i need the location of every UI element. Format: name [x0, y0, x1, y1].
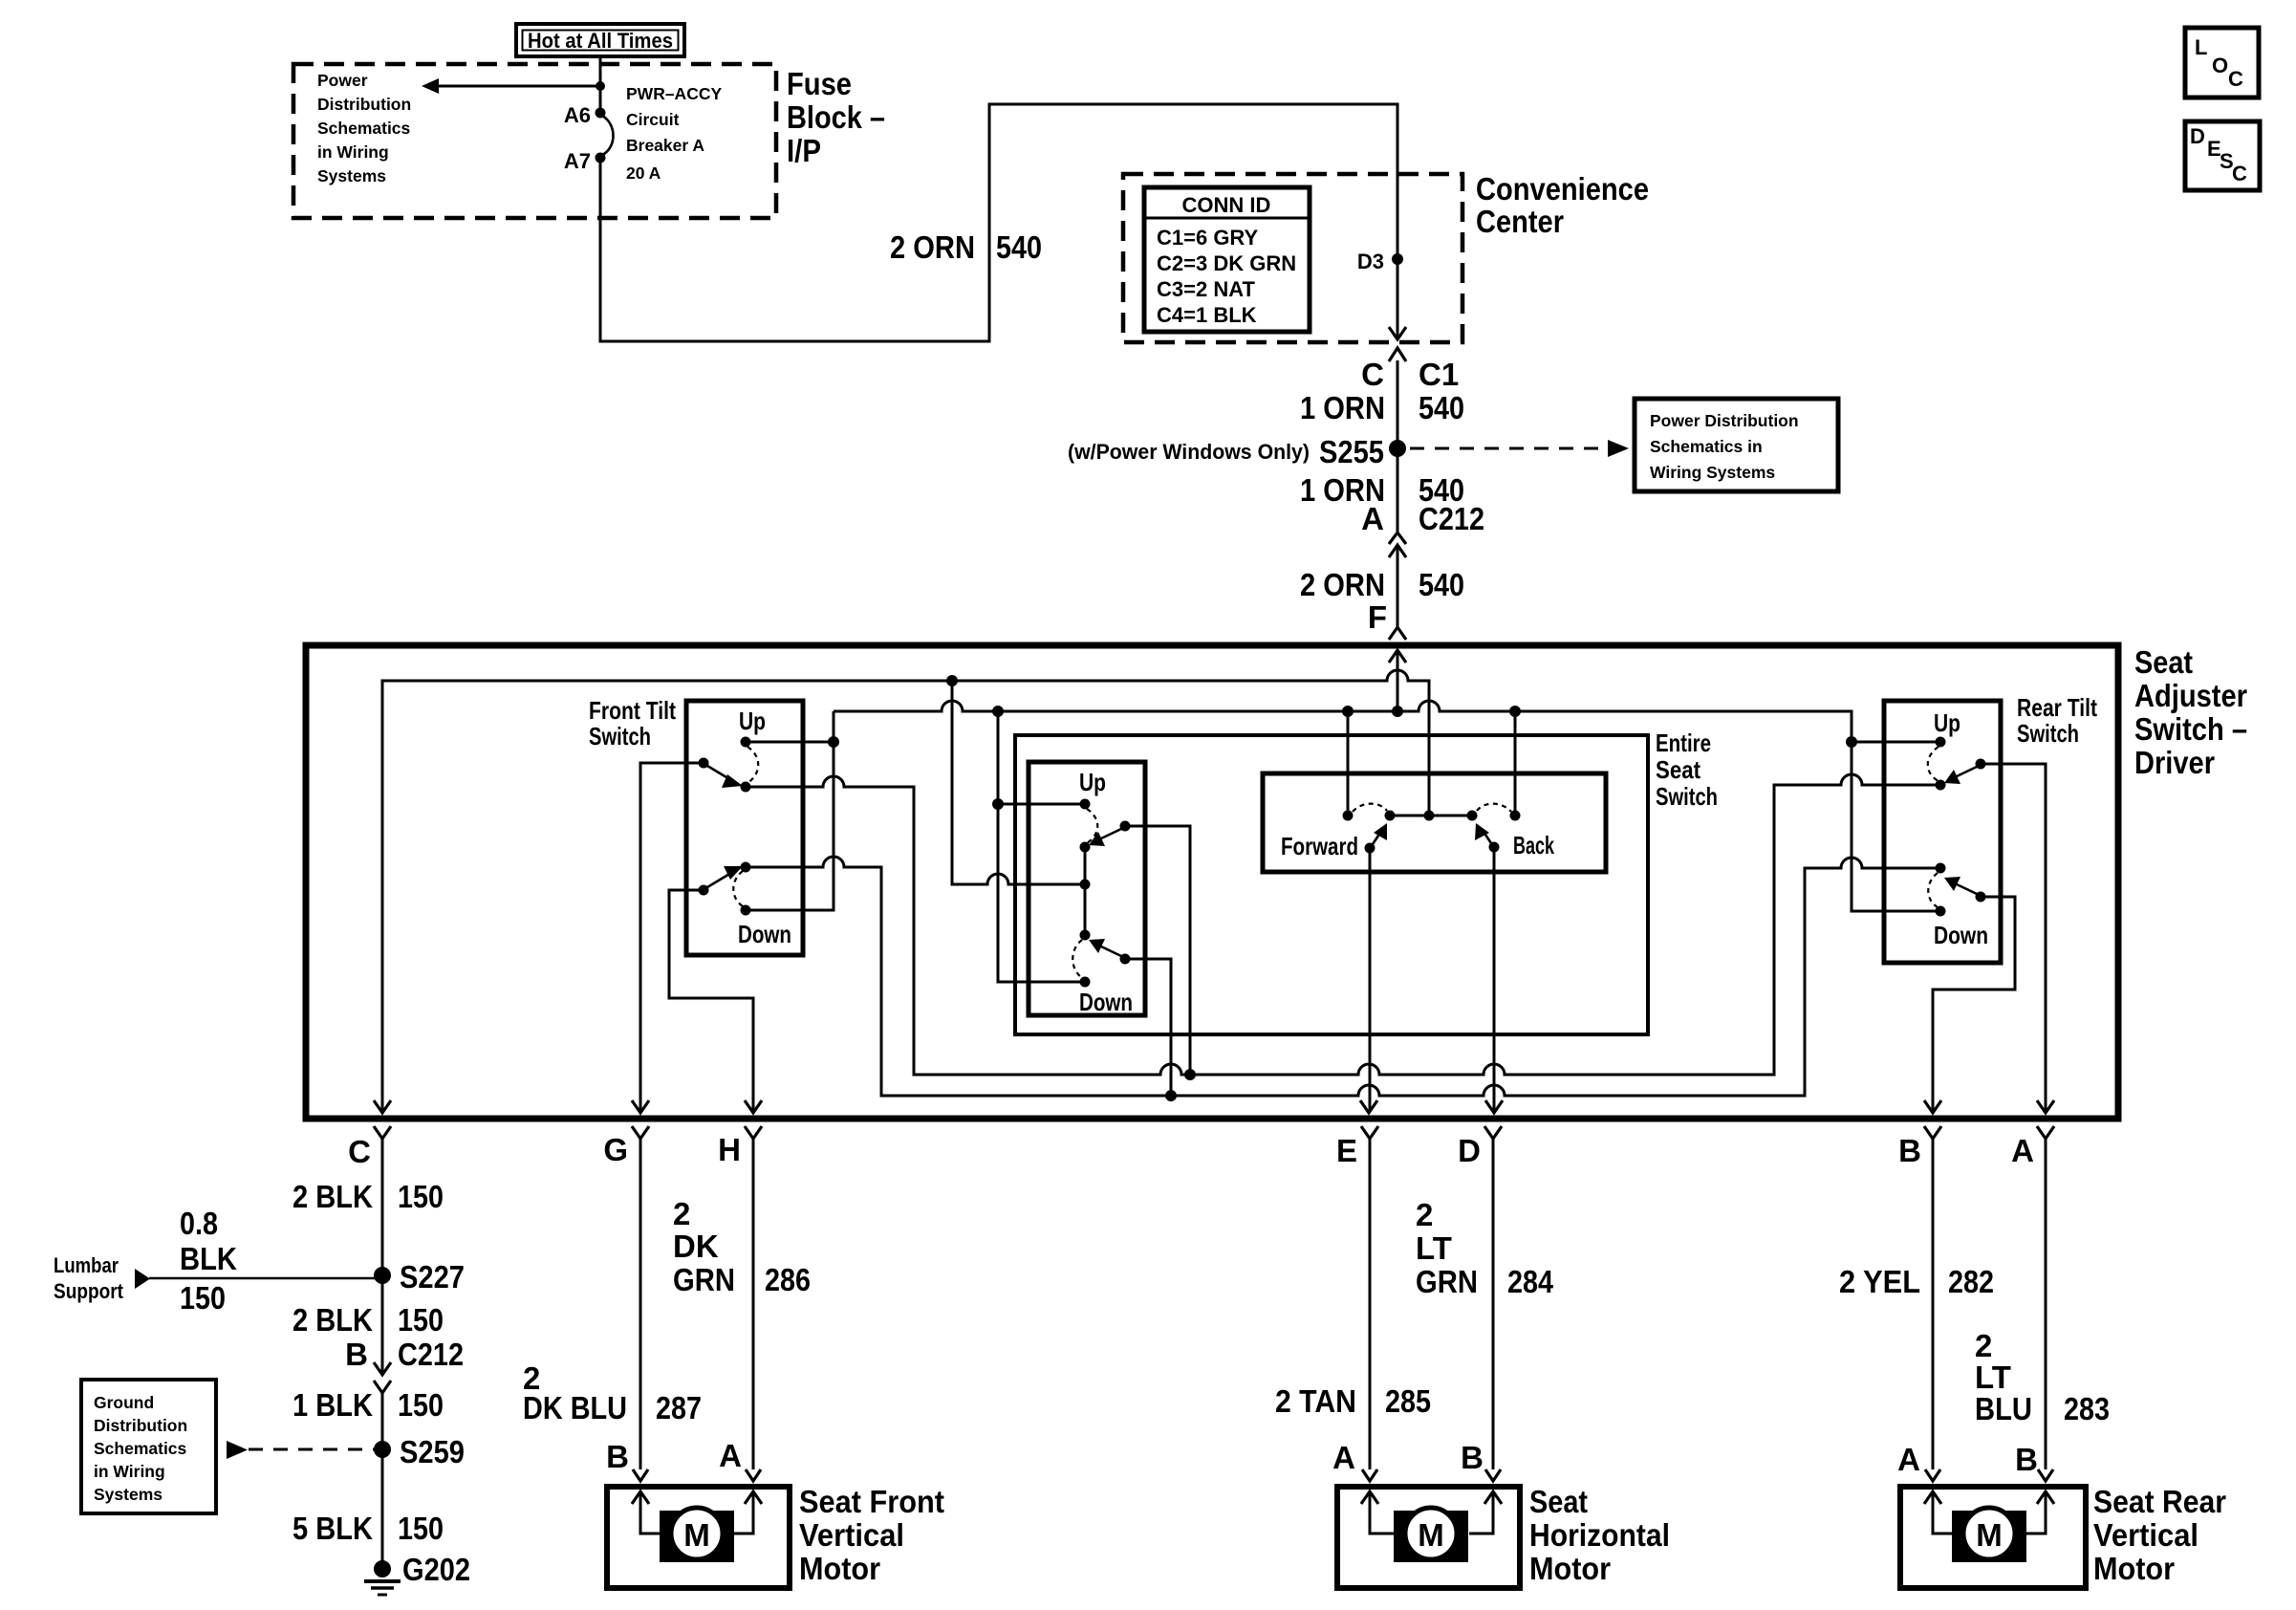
Front Tilt Switch box: [686, 701, 803, 955]
front tilt pole 1: [699, 758, 709, 769]
svg-text:H: H: [718, 1132, 741, 1167]
svg-text:Seat Front: Seat Front: [799, 1484, 944, 1519]
wire A7 to convenience center (2 ORN 540): [600, 104, 1397, 341]
Front Tilt Switch label: [589, 696, 676, 751]
svg-text:20 A: 20 A: [626, 163, 661, 183]
svg-text:2 ORN: 2 ORN: [1300, 567, 1385, 602]
splice S227: [374, 1267, 391, 1284]
front tilt tie wire: [746, 711, 834, 910]
terminal G arrow at box edge: [632, 1100, 649, 1113]
svg-text:E: E: [1336, 1133, 1357, 1168]
ground distribution reference box: [81, 1380, 216, 1513]
center bar of entire seat switch: [1390, 815, 1472, 817]
svg-text:Seat: Seat: [2134, 644, 2193, 680]
wire label 1 ORN 540 (lower): [1300, 448, 1464, 533]
splice S259: [374, 1441, 391, 1458]
svg-text:Vertical: Vertical: [799, 1517, 904, 1553]
svg-text:2: 2: [1416, 1197, 1433, 1232]
ground bus wire (C to switch poles): [382, 670, 1429, 1112]
svg-text:LT: LT: [1416, 1230, 1452, 1266]
svg-text:Power Distribution: Power Distribution: [1650, 411, 1799, 430]
svg-text:282: 282: [1948, 1264, 1994, 1299]
svg-text:540: 540: [996, 229, 1042, 265]
svg-text:F: F: [1368, 599, 1387, 635]
svg-text:540: 540: [1419, 567, 1464, 602]
dashed reference line to S259: [227, 1441, 374, 1459]
dashed throw arc center upper: [1087, 809, 1097, 843]
rear tilt down contact: [1936, 906, 1946, 917]
svg-text:Schematics in: Schematics in: [1650, 437, 1763, 456]
wire label 2 ORN 540: [890, 229, 1042, 265]
svg-text:PWR–ACCY: PWR–ACCY: [626, 84, 722, 103]
svg-text:DK BLU: DK BLU: [523, 1390, 627, 1425]
svg-text:Seat: Seat: [1656, 755, 1700, 784]
svg-text:2 BLK: 2 BLK: [292, 1179, 373, 1214]
Seat Front Vertical Motor label: [799, 1484, 944, 1586]
svg-text:2 TAN: 2 TAN: [1275, 1383, 1356, 1419]
svg-text:Adjuster: Adjuster: [2134, 678, 2247, 713]
center pivot 1: [1120, 821, 1131, 832]
svg-text:2 YEL: 2 YEL: [1839, 1264, 1920, 1299]
ground G202: [364, 1552, 470, 1595]
svg-text:Switch: Switch: [1656, 782, 1718, 811]
svg-text:Systems: Systems: [317, 166, 386, 185]
rear tilt rest contact 2: [1936, 863, 1946, 874]
terminal H below box: [718, 1126, 762, 1469]
bus 1 wire: front rest 1 to rear rest 1: [746, 774, 1940, 1075]
forward pivot: [1365, 843, 1375, 854]
seat front vertical motor: [607, 1469, 790, 1588]
svg-text:C: C: [348, 1134, 371, 1169]
svg-text:in Wiring: in Wiring: [317, 142, 389, 162]
rear tilt rest contact 1: [1936, 780, 1946, 791]
Rear Tilt Switch box: [1884, 701, 2001, 963]
svg-text:S227: S227: [400, 1259, 465, 1295]
svg-text:Wiring Systems: Wiring Systems: [1650, 463, 1775, 482]
svg-text:2: 2: [673, 1196, 690, 1231]
motor pin labels seat horizontal: [1332, 1440, 1484, 1475]
fuse block dashed box: [293, 64, 776, 218]
svg-text:2 BLK: 2 BLK: [292, 1302, 373, 1338]
back moving arm: [1475, 823, 1491, 843]
svg-text:285: 285: [1385, 1383, 1431, 1419]
svg-text:Circuit: Circuit: [626, 110, 680, 129]
svg-text:A: A: [1332, 1440, 1355, 1475]
bus 2 wire: front inner 2 to rear rest 2: [746, 857, 1940, 1096]
power distribution schematics reference box: [1635, 399, 1838, 491]
svg-text:C212: C212: [398, 1337, 464, 1372]
svg-text:S255: S255: [1319, 434, 1384, 469]
connector B / C212: [345, 1337, 464, 1449]
wire label 2 ORN 540 (to switch): [1300, 567, 1464, 602]
terminal E arrow at box edge: [1360, 1100, 1377, 1113]
svg-text:A: A: [1897, 1442, 1920, 1477]
Rear Tilt Switch label: [2017, 693, 2097, 748]
terminal B below box: [1898, 1126, 1941, 1469]
svg-text:G202: G202: [402, 1552, 470, 1587]
svg-text:C3=2 NAT: C3=2 NAT: [1157, 277, 1255, 301]
svg-text:Center: Center: [1476, 204, 1564, 239]
svg-text:A: A: [2011, 1133, 2034, 1168]
seat rear vertical motor: [1900, 1469, 2086, 1588]
svg-text:Up: Up: [739, 707, 766, 735]
svg-text:Entire: Entire: [1656, 729, 1711, 757]
svg-text:1 ORN: 1 ORN: [1300, 390, 1385, 425]
front tilt rest contact 1: [741, 782, 751, 793]
svg-text:in Wiring: in Wiring: [94, 1462, 165, 1481]
svg-text:A: A: [1361, 501, 1384, 536]
svg-text:C: C: [1361, 357, 1384, 392]
svg-text:Forward: Forward: [1281, 832, 1358, 860]
center up contact: [1080, 799, 1091, 810]
svg-text:Switch –: Switch –: [2134, 711, 2247, 747]
svg-text:2: 2: [1975, 1328, 1992, 1363]
svg-text:150: 150: [398, 1387, 444, 1423]
svg-text:LT: LT: [1975, 1360, 2011, 1395]
center pivot 2: [1120, 954, 1131, 965]
svg-text:D3: D3: [1357, 250, 1384, 273]
center pole bar: [1084, 847, 1087, 935]
Seat Rear Vertical Motor label: [2093, 1484, 2226, 1586]
svg-text:BLK: BLK: [180, 1241, 237, 1276]
center tilt switch box: [1029, 762, 1145, 1015]
wire label 2 DK BLU 287: [523, 1360, 702, 1425]
Convenience Center label: [1476, 171, 1649, 239]
DESC box: [2185, 121, 2260, 190]
svg-text:C: C: [2228, 67, 2243, 91]
svg-text:Front Tilt: Front Tilt: [589, 696, 676, 725]
dashed throw arc front lower: [733, 871, 743, 906]
svg-text:150: 150: [398, 1179, 444, 1214]
wire label 1 BLK 150: [292, 1387, 444, 1423]
terminal A6: [596, 108, 606, 119]
svg-text:Distribution: Distribution: [317, 95, 411, 114]
svg-text:Schematics: Schematics: [94, 1439, 187, 1458]
convenience center dashed box: [1123, 174, 1462, 342]
svg-text:Motor: Motor: [2093, 1551, 2175, 1586]
wire label 2 YEL 282: [1839, 1264, 1994, 1299]
splice S255: [1389, 440, 1406, 457]
wire label 2 DK GRN 286: [673, 1196, 811, 1297]
junction feed bus to back contact: [1509, 706, 1521, 717]
svg-text:Down: Down: [1079, 988, 1133, 1016]
svg-text:Distribution: Distribution: [94, 1416, 187, 1435]
svg-text:CONN ID: CONN ID: [1182, 193, 1271, 217]
terminal C arrow at box edge: [374, 1100, 391, 1113]
center pole wire to ground bus: [952, 681, 1085, 884]
svg-text:Support: Support: [54, 1279, 124, 1303]
forward outer contact: [1343, 811, 1354, 821]
motor pin labels seat rear vertical: [1897, 1442, 2038, 1477]
svg-text:286: 286: [765, 1262, 811, 1297]
svg-text:C4=1 BLK: C4=1 BLK: [1157, 303, 1257, 327]
junction on ground bus: [946, 675, 958, 686]
svg-text:150: 150: [398, 1302, 444, 1338]
svg-text:Switch: Switch: [589, 722, 651, 751]
svg-text:Ground: Ground: [94, 1393, 154, 1412]
feed bus wire (orange): [834, 701, 1940, 911]
svg-text:Up: Up: [1079, 768, 1106, 796]
lumbar support stub: [54, 1206, 382, 1316]
rear tilt pivot 2: [1976, 892, 1986, 903]
junction feed bus to forward contact: [1342, 706, 1354, 717]
svg-text:L: L: [2195, 35, 2207, 59]
connector A / C212: [1361, 501, 1484, 626]
back pivot: [1489, 842, 1500, 853]
svg-text:283: 283: [2064, 1391, 2110, 1426]
terminal F arrow into box: [1389, 650, 1406, 711]
terminal C below box: [348, 1126, 391, 1274]
dashed throw arc front upper: [747, 747, 758, 783]
svg-text:C2=3 DK GRN: C2=3 DK GRN: [1157, 251, 1296, 275]
dashed throw arc rear upper: [1928, 747, 1939, 781]
wire label 2 LT BLU 283: [1975, 1328, 2110, 1426]
circuit breaker A arc: [600, 115, 614, 156]
svg-text:G: G: [603, 1132, 628, 1167]
svg-text:Block –: Block –: [787, 99, 885, 135]
CONN ID table: [1144, 187, 1310, 332]
wire label 2 BLK 150 (lower): [292, 1275, 444, 1374]
svg-text:B: B: [345, 1337, 368, 1372]
svg-text:D: D: [2190, 124, 2205, 148]
LOC box: [2185, 28, 2259, 98]
svg-text:Seat Rear: Seat Rear: [2093, 1484, 2226, 1519]
power distribution note text: [317, 71, 411, 185]
svg-text:M: M: [683, 1517, 710, 1553]
dashed throw arc rear lower: [1928, 873, 1938, 907]
forward/back switch box: [1263, 773, 1606, 872]
svg-text:I/P: I/P: [787, 133, 821, 168]
front tilt pole 2: [699, 885, 709, 896]
PWR-ACCY circuit breaker label: [626, 84, 722, 183]
svg-text:D: D: [1458, 1133, 1481, 1168]
front tilt inner contact 2: [741, 862, 751, 873]
terminal E below box: [1336, 1126, 1378, 1469]
svg-text:O: O: [2212, 54, 2228, 77]
svg-text:Motor: Motor: [799, 1551, 880, 1586]
svg-text:Rear Tilt: Rear Tilt: [2017, 693, 2097, 722]
rear tilt pivot 1: [1976, 759, 1986, 770]
svg-text:C1=6 GRY: C1=6 GRY: [1157, 226, 1259, 250]
forward moving arm: [1373, 823, 1387, 844]
svg-text:Schematics: Schematics: [317, 119, 411, 138]
center moving arm 2: [1089, 939, 1121, 956]
wire label 5 BLK 150: [292, 1449, 444, 1568]
terminal A arrow at box edge: [2037, 1100, 2054, 1113]
entire seat switch box: [1015, 735, 1648, 1034]
rear tilt up contact: [1936, 737, 1946, 748]
svg-text:GRN: GRN: [673, 1262, 735, 1297]
svg-text:Hot at All Times: Hot at All Times: [528, 29, 673, 53]
wire from hot feed to A6: [599, 56, 602, 113]
Seat Horizontal Motor label: [1529, 1484, 1670, 1586]
wire label 1 ORN 540 (upper): [1300, 390, 1464, 425]
svg-text:(w/Power Windows Only): (w/Power Windows Only): [1068, 440, 1310, 464]
svg-text:BLU: BLU: [1975, 1391, 2032, 1426]
front tilt up contact: [741, 737, 751, 748]
svg-text:GRN: GRN: [1416, 1264, 1478, 1299]
svg-text:C: C: [2232, 162, 2247, 185]
dashed throw arc center lower: [1072, 940, 1082, 978]
svg-text:0.8: 0.8: [180, 1206, 218, 1241]
svg-text:Systems: Systems: [94, 1485, 162, 1504]
svg-text:Down: Down: [738, 920, 791, 948]
svg-text:150: 150: [398, 1511, 444, 1546]
svg-text:Up: Up: [1934, 708, 1960, 737]
junction node at feed: [596, 81, 605, 91]
terminal F entering switch: [1368, 599, 1406, 640]
svg-text:M: M: [1418, 1517, 1444, 1553]
svg-text:5 BLK: 5 BLK: [292, 1511, 373, 1546]
dashed throw arc back: [1477, 804, 1511, 812]
svg-text:M: M: [1976, 1517, 2003, 1553]
svg-text:287: 287: [656, 1390, 702, 1425]
Entire Seat Switch label: [1656, 729, 1718, 811]
svg-text:A6: A6: [564, 103, 591, 127]
svg-text:Motor: Motor: [1529, 1551, 1611, 1586]
svg-text:A: A: [719, 1438, 742, 1473]
connector C / C1 at convenience center: [1361, 327, 1459, 448]
svg-text:Fuse: Fuse: [787, 66, 852, 101]
wire label 2 TAN 285: [1275, 1383, 1431, 1419]
wire label 2 LT GRN 284: [1416, 1197, 1554, 1299]
svg-text:284: 284: [1507, 1264, 1554, 1299]
front tilt moving arm 1: [707, 766, 743, 788]
svg-text:B: B: [2015, 1442, 2038, 1477]
svg-text:DK: DK: [673, 1229, 719, 1264]
terminal A below box: [2011, 1126, 2054, 1469]
terminal B arrow at box edge: [1924, 1100, 1941, 1113]
svg-text:150: 150: [180, 1280, 226, 1316]
svg-text:A7: A7: [564, 149, 591, 173]
svg-text:1 BLK: 1 BLK: [292, 1387, 373, 1423]
dashed throw arc forward: [1353, 804, 1387, 812]
junction feed bus to center tie: [992, 706, 1004, 717]
node D3: [1392, 253, 1403, 265]
svg-text:Down: Down: [1934, 921, 1988, 949]
svg-text:Driver: Driver: [2134, 745, 2215, 780]
front tilt moving arm 2: [707, 866, 743, 887]
svg-text:Vertical: Vertical: [2093, 1517, 2199, 1553]
seat adjuster switch outer box: [306, 645, 2118, 1119]
rear moving arm 1: [1944, 767, 1977, 784]
motor pin labels seat front vertical: [606, 1438, 742, 1474]
svg-text:Convenience: Convenience: [1476, 171, 1649, 207]
svg-text:Breaker A: Breaker A: [626, 136, 704, 155]
svg-text:540: 540: [1419, 390, 1464, 425]
wire label 2 BLK 150 (upper): [292, 1179, 444, 1214]
svg-text:B: B: [1898, 1133, 1921, 1168]
svg-text:Power: Power: [317, 71, 368, 90]
center moving arm 1: [1089, 829, 1121, 846]
Hot at All Times banner: [516, 24, 684, 56]
Seat Adjuster Switch - Driver label: [2134, 644, 2247, 780]
svg-text:C1: C1: [1419, 357, 1459, 392]
svg-text:2 ORN: 2 ORN: [890, 229, 975, 265]
center tie wire: [998, 711, 1085, 982]
svg-text:S259: S259: [400, 1434, 465, 1469]
arrow to power distribution: [422, 78, 600, 94]
svg-text:Horizontal: Horizontal: [1529, 1517, 1670, 1553]
junction feed bus to terminal F: [1392, 706, 1403, 717]
seat horizontal motor: [1337, 1469, 1520, 1588]
svg-text:C212: C212: [1419, 501, 1484, 536]
svg-text:B: B: [606, 1439, 629, 1474]
back outer contact: [1510, 811, 1521, 821]
terminal G below box: [603, 1126, 649, 1469]
svg-text:Lumbar: Lumbar: [54, 1253, 119, 1277]
svg-text:Seat: Seat: [1529, 1484, 1588, 1519]
terminal D below box: [1458, 1126, 1502, 1469]
Fuse Block - I/P label: [787, 66, 885, 168]
terminal H arrow at box edge: [745, 1100, 762, 1113]
svg-text:Switch: Switch: [2017, 719, 2079, 748]
terminal A7: [596, 153, 606, 163]
junction rear tie to up contact: [1846, 736, 1857, 748]
rear moving arm 2: [1944, 877, 1977, 894]
dashed reference line from S255: [1410, 440, 1629, 457]
terminal D arrow at box edge: [1485, 1100, 1503, 1113]
svg-text:Back: Back: [1513, 831, 1554, 859]
svg-text:B: B: [1461, 1440, 1484, 1475]
